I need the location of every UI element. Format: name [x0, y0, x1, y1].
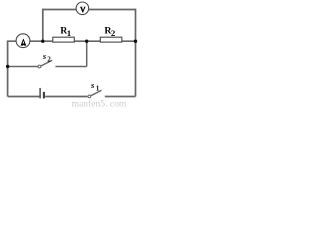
svg-text:2: 2: [47, 56, 51, 64]
wire main horizontal: [8, 40, 136, 42]
voltmeter V: [76, 2, 89, 15]
node right of R2: [134, 40, 137, 43]
svg-text:2: 2: [111, 28, 116, 38]
switch S1: [88, 90, 102, 98]
svg-text:1: 1: [96, 84, 100, 92]
wire bottom left segment: [8, 96, 40, 98]
svg-text:manfen5. com: manfen5. com: [72, 99, 127, 108]
battery cell: [40, 88, 44, 99]
wire S2 branch right segment: [55, 66, 86, 68]
svg-text:1: 1: [67, 28, 71, 38]
resistor R1: [53, 37, 75, 42]
svg-text:s: s: [42, 51, 47, 61]
node between A and R1: [41, 40, 44, 43]
wire left vertical: [7, 40, 9, 96]
wire top of voltmeter loop: [43, 9, 136, 11]
switch S2: [38, 60, 52, 68]
resistor R2: [100, 37, 122, 42]
wire left side of voltmeter loop: [42, 9, 44, 42]
wire S2 branch left segment: [8, 66, 38, 68]
svg-text:s: s: [90, 80, 95, 90]
wire S2 branch vertical to R1-R2 node: [86, 41, 88, 66]
node on left vertical for S2 branch: [6, 65, 9, 68]
node between R1 and R2: [85, 40, 88, 43]
wire right vertical: [135, 9, 137, 97]
wire bottom middle segment: [45, 96, 87, 98]
ammeter A: [16, 34, 30, 48]
wire bottom right segment: [105, 96, 136, 98]
